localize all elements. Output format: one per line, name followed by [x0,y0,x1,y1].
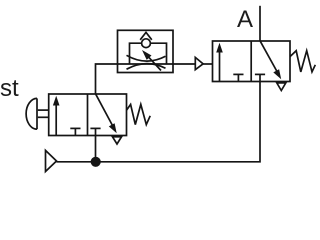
svg-text:st: st [0,75,19,102]
svg-text:A: A [237,6,253,33]
